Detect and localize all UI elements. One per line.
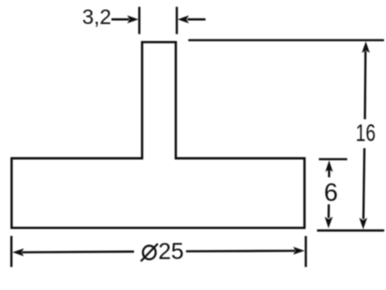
dim 3,2 right extension line [176, 7, 178, 34]
dim 16 line lower with down arrow [359, 148, 367, 229]
dim 6 line lower with down arrow [325, 204, 333, 228]
dim 6 top extension line [319, 158, 347, 160]
svg-text:16: 16 [356, 120, 376, 147]
svg-text:3,2: 3,2 [82, 6, 111, 29]
dia 25 right extension line [305, 236, 307, 267]
dim 25 line left segment with left arrow [12, 248, 134, 256]
dim 16 bottom extension line [317, 229, 384, 231]
dim 16 line upper with up arrow [362, 41, 370, 119]
svg-text:25: 25 [158, 238, 184, 264]
dim 3,2 left arrow [111, 15, 138, 23]
dim 16 top extension line [188, 39, 384, 41]
dim 25 line right segment with right arrow [186, 247, 305, 255]
dim 3,2 right arrow [178, 15, 206, 23]
dim 3,2 left extension line [138, 7, 140, 34]
diameter symbol [141, 244, 158, 262]
part outline (T-shaped cross-section) [12, 42, 305, 228]
svg-text:6: 6 [324, 179, 338, 207]
dia 25 left extension line [10, 236, 12, 267]
dim 6 line upper with up arrow [325, 160, 333, 177]
